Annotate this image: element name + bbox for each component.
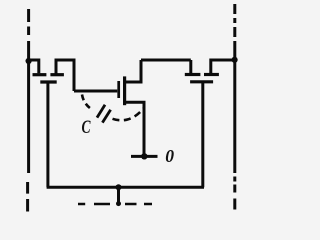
- right supply rail dashed continuation (bottom): [233, 177, 236, 210]
- capacitor C dashed lead (right arc to T2 source wire): [113, 109, 144, 121]
- transistor T3 drain electrode bar: [185, 73, 201, 76]
- wire T2 drain up to top wire: [125, 60, 141, 82]
- wire left rail to T1 drain: [29, 60, 39, 73]
- svg-text:0: 0: [165, 146, 174, 166]
- left supply rail: [27, 41, 30, 173]
- wire top bus T2 drain to T3 drain: [141, 59, 191, 62]
- capacitor C plate 1: [97, 105, 105, 118]
- right supply rail: [233, 41, 236, 173]
- transistor T1 gate bar: [40, 80, 56, 83]
- node 0 junction dot: [141, 153, 147, 159]
- capacitor C plate 2: [102, 110, 110, 123]
- bottom bus junction dot: [116, 184, 122, 190]
- node 0 terminal stub: [131, 155, 158, 158]
- svg-text:C: C: [82, 118, 91, 138]
- transistor T2 gate bar: [117, 81, 120, 98]
- wire T3 source up and to right rail: [211, 60, 235, 75]
- transistor T2 channel bar: [123, 76, 126, 105]
- wire T1 source to T2 gate lead: [74, 90, 117, 93]
- capacitor C dashed lead (left arc from T2 gate wire): [82, 95, 92, 110]
- transistor T3 gate lead down to bottom bus: [201, 82, 204, 187]
- left supply rail dashed continuation (bottom): [26, 182, 29, 212]
- bottom bus stub dot: [116, 201, 121, 206]
- wire T3 drain lead: [189, 60, 192, 73]
- bottom bus stub down: [117, 187, 120, 203]
- node A junction dot on left rail: [26, 58, 32, 64]
- transistor T1 source electrode bar: [50, 73, 64, 76]
- wire T2 source down to node 0: [125, 102, 144, 156]
- right supply rail dashed continuation (top): [233, 4, 236, 37]
- bottom bus wire: [47, 186, 204, 189]
- transistor T1 gate lead down to bottom bus: [46, 82, 49, 187]
- node B junction dot on right rail: [232, 57, 238, 63]
- left supply rail dashed continuation (top): [27, 9, 30, 35]
- wire T1 source up and over to T2 gate: [56, 60, 74, 91]
- transistor T3 gate bar: [190, 80, 213, 83]
- transistor T3 source electrode bar: [204, 73, 219, 76]
- dashed common line (bottom continuation): [78, 203, 152, 206]
- transistor T1 drain electrode bar: [33, 73, 47, 76]
